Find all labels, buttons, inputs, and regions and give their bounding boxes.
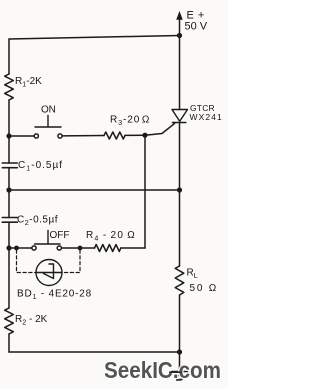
ground: [172, 352, 188, 380]
supply arrow E+: [179, 18, 181, 36]
node junction left OFF row: [6, 245, 11, 250]
svg-text:BD1 - 4E20-28: BD1 - 4E20-28: [17, 289, 92, 302]
svg-text:50 V: 50 V: [185, 21, 208, 33]
svg-text:R2 - 2K: R2 - 2K: [15, 314, 48, 327]
wire bottom horizontal: [9, 351, 180, 353]
wire ON row middle: [62, 135, 104, 137]
wire left vertical lower: [8, 334, 10, 352]
wire ON row left: [9, 135, 34, 137]
svg-text:OFF: OFF: [50, 230, 70, 241]
wire left vertical R1 to C1: [8, 100, 10, 163]
wire link gate node to R4: [144, 135, 146, 248]
wire right vertical lower: [179, 295, 181, 352]
node dashed box right tap: [78, 246, 83, 251]
wire left vertical C1 to C2: [8, 168, 10, 218]
svg-text:50 Ω: 50 Ω: [190, 283, 219, 294]
svg-text:WX241: WX241: [190, 112, 223, 122]
node junction top right: [177, 33, 182, 38]
wire middle horizontal: [9, 189, 180, 191]
svg-text:C1-0.5µf: C1-0.5µf: [18, 160, 63, 173]
wire right vertical cathode to RL: [179, 123, 181, 267]
wire dashed box: [17, 250, 81, 273]
wire left vertical upper: [8, 39, 10, 74]
resistor R2: [5, 308, 14, 334]
resistor R3: [104, 132, 125, 139]
node gate junction: [142, 133, 147, 138]
diode BD1 4-layer: [36, 260, 62, 286]
node junction left middle row: [6, 187, 11, 192]
capacitor C1: [2, 163, 17, 168]
wire top horizontal: [9, 36, 180, 40]
wire OFF row left: [9, 247, 32, 249]
node dashed box left tap: [14, 246, 19, 251]
wire right vertical anode: [179, 36, 181, 110]
switch S2 OFF pushbutton: [32, 246, 36, 250]
node junction bottom right: [177, 349, 182, 354]
wire left vertical C2 to R2: [8, 222, 10, 308]
capacitor C2: [2, 218, 17, 223]
svg-text:R3-20 Ω: R3-20 Ω: [110, 115, 150, 128]
wire R3 to gate node: [125, 134, 145, 136]
svg-text:C2-0.5µf: C2-0.5µf: [17, 214, 58, 227]
wire OFF row middle: [61, 247, 94, 249]
wire gate lead: [145, 124, 175, 136]
resistor RL: [175, 266, 184, 295]
resistor R4: [95, 245, 121, 252]
thyristor GTCR WX241: [172, 110, 188, 122]
wire R4 to link: [121, 247, 145, 249]
ground bar visible through watermark: [169, 372, 182, 380]
switch S1 ON pushbutton: [34, 134, 38, 138]
node junction right middle row: [177, 187, 182, 192]
svg-text:R4 - 20 Ω: R4 - 20 Ω: [86, 230, 136, 243]
svg-text:ON: ON: [41, 105, 56, 116]
node junction left ON row: [6, 133, 11, 138]
svg-text:R1-2K: R1-2K: [15, 76, 42, 89]
svg-text:SeekIC.com: SeekIC.com: [104, 357, 221, 383]
resistor R1: [5, 74, 14, 100]
